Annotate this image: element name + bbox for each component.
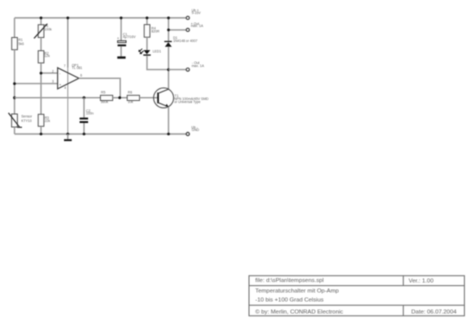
svg-text:560k: 560k — [101, 100, 109, 104]
wire bottom rail GND — [15, 133, 187, 135]
wire op-amp pin7 column — [67, 18, 69, 68]
wire top rail Ub+ — [15, 17, 187, 19]
node junction output / R5-R6 — [118, 96, 121, 99]
svg-text:4: 4 — [64, 86, 66, 90]
resistor R3 — [38, 114, 50, 126]
svg-text:max. 1A: max. 1A — [192, 64, 205, 68]
capacitor C1 electrolytic — [117, 32, 136, 56]
wire pin2 row — [41, 72, 58, 74]
wire R4 to LED — [146, 37, 148, 50]
node junction left column / feedback row — [13, 96, 16, 99]
svg-text:100k: 100k — [44, 28, 52, 32]
node junction -Out row / collector column — [167, 68, 170, 71]
wire C1 column from top rail — [120, 18, 122, 41]
wire op-amp pin4 column through triangle to bottom rail — [67, 68, 69, 134]
title block text — [255, 278, 457, 316]
svg-text:4µ7/16V: 4µ7/16V — [123, 35, 136, 39]
node junction C2 / feedback row — [83, 96, 86, 99]
node junction C2 / bottom rail — [83, 133, 86, 136]
sensor KTY10 — [8, 113, 33, 127]
wire LED cathode down and right to -Out row — [147, 56, 169, 70]
terminal -Out — [186, 61, 205, 71]
svg-text:2: 2 — [52, 69, 54, 73]
node junction R3 / bottom rail — [40, 133, 43, 136]
wire +Out row — [169, 29, 187, 31]
svg-text:-10 bis +100 Grad Celsius: -10 bis +100 Grad Celsius — [255, 298, 323, 304]
wire R4 column from top rail — [146, 18, 148, 25]
resistor R5 — [100, 91, 112, 104]
svg-text:R6: R6 — [128, 91, 132, 95]
node junction bottom rail / pin4 — [66, 133, 69, 136]
node junction top rail / pin7 — [66, 17, 69, 20]
svg-text:file: d:\sPlan\tempsens.spl: file: d:\sPlan\tempsens.spl — [255, 278, 323, 284]
terminal Ub- GND — [186, 125, 199, 135]
svg-text:100n: 100n — [86, 111, 94, 115]
svg-text:© by: Merlin, CONRAD Electron: © by: Merlin, CONRAD Electronic — [255, 309, 343, 316]
svg-text:5k6: 5k6 — [18, 42, 24, 46]
wire op-amp output row — [79, 78, 120, 97]
node junction top rail / P1 — [40, 17, 43, 20]
transistor T1 — [154, 88, 209, 108]
svg-text:KTY10: KTY10 — [21, 119, 31, 123]
svg-text:LED1: LED1 — [153, 49, 162, 53]
svg-text:Date: 06.07.2004: Date: 06.07.2004 — [411, 310, 457, 316]
terminal +Out — [186, 22, 204, 32]
svg-text:+: + — [117, 35, 120, 40]
ground below C1 — [117, 56, 125, 58]
node junction R2 column / pin2 row — [40, 72, 43, 75]
node junction top rail / C1 — [120, 17, 123, 20]
node junction emitter / bottom rail — [167, 133, 170, 136]
svg-text:22k: 22k — [45, 119, 51, 123]
wire R3 to bottom rail — [40, 126, 42, 134]
wire left column top (rail to R1) — [14, 18, 16, 38]
wire R6 to transistor base — [140, 97, 158, 99]
wire left column middle (R1 to sensor) — [14, 50, 16, 114]
svg-text:1N4148 or 4007: 1N4148 or 4007 — [173, 39, 197, 43]
svg-text:-: - — [59, 70, 61, 75]
node junction left column / pin3 row — [13, 82, 16, 85]
svg-text:R5: R5 — [101, 91, 105, 95]
wire R5 to R6 — [113, 97, 128, 99]
svg-text:TL 081: TL 081 — [72, 66, 83, 70]
capacitor C2 — [80, 98, 94, 134]
title block frame — [249, 276, 464, 316]
svg-text:3: 3 — [52, 79, 54, 83]
wire feedback row (left column to R5) — [15, 97, 101, 99]
resistor R1 — [12, 38, 24, 50]
svg-text:9-15V: 9-15V — [192, 11, 202, 15]
wire pin3 row — [15, 83, 58, 85]
svg-text:GND: GND — [192, 128, 200, 132]
svg-text:10k: 10k — [128, 100, 134, 104]
wire D1 column from top rail — [168, 18, 170, 41]
wire P1 column from top rail — [40, 18, 42, 25]
svg-text:max. 1A: max. 1A — [191, 24, 204, 28]
resistor R6 — [127, 91, 139, 104]
wire sensor to bottom rail — [14, 127, 16, 134]
wire R2 to pin2 junction, down to R3 — [40, 63, 42, 114]
terminal Ub+ — [186, 9, 201, 20]
node junction +Out row / D1 column — [167, 29, 170, 32]
ground — [64, 134, 72, 141]
resistor R2 — [38, 51, 50, 63]
wire P1 to R2 — [40, 38, 42, 51]
svg-text:or Universal Type: or Universal Type — [174, 100, 200, 104]
svg-text:6: 6 — [80, 73, 82, 77]
wire -Out row to terminal — [169, 69, 187, 71]
wire D1 to -Out node to collector — [168, 47, 170, 89]
op-amp OP1 TL 081 — [52, 63, 82, 90]
LED LED1 — [139, 49, 161, 56]
svg-text:820R: 820R — [151, 29, 160, 33]
node junction top rail / R4 — [146, 17, 149, 20]
diode D1 — [164, 36, 197, 47]
svg-text:7: 7 — [64, 64, 66, 68]
svg-text:12k: 12k — [44, 54, 50, 58]
svg-text:Temperaturschalter mit Op-Amp: Temperaturschalter mit Op-Amp — [255, 289, 339, 295]
potentiometer P1 — [34, 23, 52, 38]
wire emitter to bottom rail — [168, 107, 170, 134]
node junction top rail / D1 column — [167, 17, 170, 20]
resistor R4 — [144, 25, 160, 38]
svg-text:Ver.: 1.00: Ver.: 1.00 — [409, 278, 435, 284]
